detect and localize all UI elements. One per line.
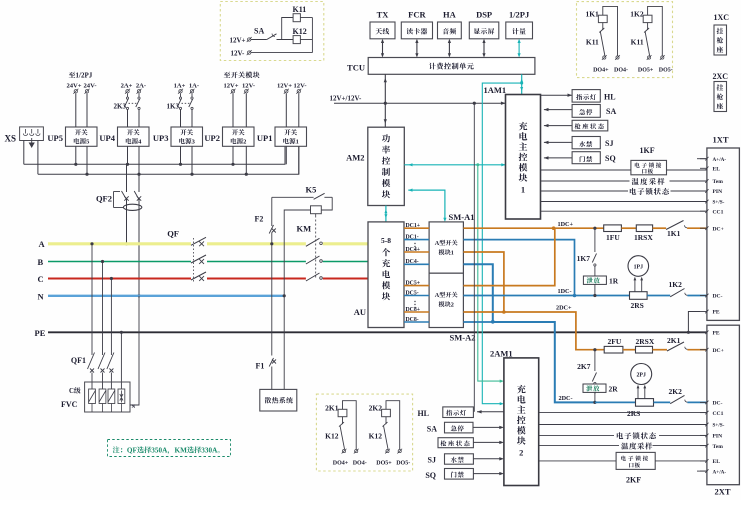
svg-text:DO5+: DO5+ xyxy=(638,68,654,74)
K5 linkage dashed to KM xyxy=(315,214,317,216)
varistor element xyxy=(89,389,96,404)
varistor element xyxy=(99,389,106,404)
svg-text:EL: EL xyxy=(713,459,721,465)
coil K5 xyxy=(321,197,332,210)
svg-text:12V-: 12V- xyxy=(293,82,306,89)
output relay dashed box (DO4/DO5 circuit 1) xyxy=(577,2,673,78)
neutral bus N (blue) xyxy=(48,295,284,297)
terminal PIN (2XT) xyxy=(700,434,707,436)
svg-text:C: C xyxy=(38,274,44,284)
terminal Tem (2XT) xyxy=(700,445,707,447)
1DC- rail from SM-A2 xyxy=(463,295,629,297)
wire DC8+ between AU and switch module xyxy=(404,311,429,313)
contactor KM (3-pole) xyxy=(0,0,1,1)
1DC+ rail from SM-A1 xyxy=(463,227,603,229)
svg-text:2AM1: 2AM1 xyxy=(490,349,513,359)
wire A+/A- stub (1XT) xyxy=(697,158,707,160)
phase A bus (yellow) xyxy=(48,242,191,245)
svg-text:J: J xyxy=(89,72,93,80)
svg-text:1/2PJ: 1/2PJ xyxy=(509,10,530,20)
emergency stop SA (circuit1) xyxy=(544,109,572,111)
terminal DO4+ xyxy=(342,449,347,454)
supply bus L (upper) xyxy=(24,146,285,164)
output relay dashed box (DO4/DO5 circuit 2) xyxy=(316,394,412,471)
svg-text:SM-A2: SM-A2 xyxy=(450,333,476,343)
wires UP5 to buses xyxy=(75,146,77,164)
junction dots on supply buses for UP2 xyxy=(231,163,234,166)
svg-text:24V+: 24V+ xyxy=(66,82,81,89)
teal link AM2 to SM-A1 xyxy=(408,190,445,218)
svg-text:DO4-: DO4- xyxy=(353,461,367,467)
wire N to cooling system xyxy=(283,296,285,390)
svg-text:PE: PE xyxy=(713,331,720,337)
wire DC4+ between AU and switch module xyxy=(404,251,429,253)
svg-text:DO5-: DO5- xyxy=(396,461,410,467)
svg-text:1FU: 1FU xyxy=(606,233,620,242)
teal link AM2 to 1AM1 xyxy=(404,164,505,166)
terminal DO5- xyxy=(397,449,402,454)
svg-text:AM2: AM2 xyxy=(346,153,364,163)
terminal 24V- xyxy=(85,89,90,94)
svg-text:12V+: 12V+ xyxy=(223,82,238,89)
svg-text:DSP: DSP xyxy=(476,10,492,20)
svg-text:K12: K12 xyxy=(325,432,339,441)
wire DC4- down xyxy=(463,264,492,321)
wires UP2 to buses xyxy=(232,146,234,164)
svg-text:1K1: 1K1 xyxy=(667,229,681,238)
shunt resistor 1RSX xyxy=(636,225,652,232)
svg-text:A+/A-: A+/A- xyxy=(713,157,727,163)
switching power supply UP1 box xyxy=(275,127,307,146)
svg-text:DO4+: DO4+ xyxy=(333,461,349,467)
svg-text:2RSX: 2RSX xyxy=(636,337,655,346)
svg-text:UP2: UP2 xyxy=(204,133,220,143)
terminal CC1 (2XT) xyxy=(700,412,707,414)
svg-text:1: 1 xyxy=(451,250,454,257)
ground symbol below XS xyxy=(31,138,33,143)
svg-text:F1: F1 xyxy=(256,362,265,371)
svg-text:A: A xyxy=(435,292,440,299)
svg-text:N: N xyxy=(38,292,45,302)
wire DC5- between AU and switch module xyxy=(404,295,429,297)
double arrow DSP to billing unit xyxy=(483,42,485,54)
wire phase tap to QF1 pole xyxy=(90,242,93,245)
terminal DO4- xyxy=(354,449,359,454)
svg-text:2RS: 2RS xyxy=(631,301,644,310)
terminal CC1 (1XT) xyxy=(700,210,707,212)
wire DC1- between AU and switch module xyxy=(404,239,429,241)
junction dots on supply buses for UP3 xyxy=(179,163,182,166)
double arrow FCR to billing unit xyxy=(416,42,418,54)
svg-text:1R: 1R xyxy=(609,277,619,286)
svg-text:PE: PE xyxy=(35,328,46,338)
varistor element xyxy=(108,389,115,404)
double arrow billing to AM2 xyxy=(384,74,386,127)
svg-text:PIN: PIN xyxy=(713,189,723,195)
svg-text:QF1: QF1 xyxy=(71,356,86,365)
svg-text:SA: SA xyxy=(606,107,616,116)
svg-text:EL: EL xyxy=(713,167,721,173)
terminal 12V+ xyxy=(247,37,252,42)
svg-text:UP5: UP5 xyxy=(47,133,63,143)
svg-text:2PJ: 2PJ xyxy=(637,372,646,378)
switching power supply UP2 box xyxy=(223,127,255,146)
2DC+ rail xyxy=(593,348,596,351)
svg-text:24V-: 24V- xyxy=(83,82,96,89)
svg-text:Tem: Tem xyxy=(713,444,724,450)
svg-text:K11: K11 xyxy=(586,38,599,47)
wires UP3 to buses xyxy=(180,146,182,164)
wire S+/S- (2) xyxy=(539,424,707,426)
teal double arrow AM2 to AU xyxy=(385,206,387,222)
PE tap to surge arrester xyxy=(120,331,123,334)
note box: QF select 350A, KM select 330A xyxy=(108,440,231,457)
svg-text:DC-: DC- xyxy=(713,401,723,407)
junction dots on supply buses for UP4 xyxy=(126,163,129,166)
svg-text:UP4: UP4 xyxy=(99,133,115,143)
svg-text:FCR: FCR xyxy=(408,10,426,20)
bleed resistor 2R box xyxy=(583,384,606,392)
terminal PE (1XT) xyxy=(700,311,707,313)
svg-text:12V-: 12V- xyxy=(242,82,255,89)
svg-text:1RSX: 1RSX xyxy=(634,233,653,242)
wires UP4 to buses xyxy=(127,146,129,164)
wire CC1 (2) xyxy=(539,412,707,414)
teal link billing to 1AM1 xyxy=(521,74,523,94)
svg-text:C: C xyxy=(69,388,74,395)
terminal EL (1XT) xyxy=(700,167,707,169)
right return wire xyxy=(311,18,313,53)
svg-text:XS: XS xyxy=(5,134,17,144)
wire EL through 2KF (2) xyxy=(539,460,616,462)
door sensor SQ (circuit1) xyxy=(544,157,572,159)
svg-text:K12: K12 xyxy=(293,27,307,36)
svg-text:QF2: QF2 xyxy=(96,194,112,204)
svg-text:1K7: 1K7 xyxy=(577,254,591,263)
svg-text:1XT: 1XT xyxy=(713,135,729,145)
svg-text:HL: HL xyxy=(417,409,429,418)
label to 1/2PJ xyxy=(69,72,93,80)
svg-text:UP1: UP1 xyxy=(257,133,273,143)
svg-text:SJ: SJ xyxy=(605,139,613,148)
terminal 2A- xyxy=(137,89,142,94)
wire Tem with label xyxy=(541,180,630,182)
svg-text:2: 2 xyxy=(519,447,523,457)
svg-text:1K3: 1K3 xyxy=(167,103,180,111)
KM linkage dashed xyxy=(315,216,317,280)
meter sense arrows from 2RS xyxy=(634,280,636,292)
wire DC5+ between AU and switch module xyxy=(404,285,429,287)
fuse 1FU xyxy=(604,225,622,232)
top link wire xyxy=(386,401,400,449)
ellipsis dots between DC1- and DC4+ xyxy=(414,243,415,244)
indicator light HL (circuit1) xyxy=(541,94,573,96)
svg-text:A: A xyxy=(39,239,46,249)
svg-text:1A-: 1A- xyxy=(189,82,199,89)
phase B bus (green) xyxy=(48,261,191,263)
svg-text:FVC: FVC xyxy=(61,400,78,409)
svg-text:2A+: 2A+ xyxy=(121,82,133,89)
wire DC8- between AU and switch module xyxy=(404,321,429,323)
wires UP1 to buses xyxy=(285,146,287,164)
svg-text:DC+: DC+ xyxy=(713,226,724,232)
wire CC1 xyxy=(541,210,707,212)
terminal 12V- (UP2) xyxy=(244,89,249,94)
svg-text:SM-A1: SM-A1 xyxy=(449,212,475,222)
auxiliary relay dashed box (SA control) xyxy=(220,2,323,61)
svg-text:A: A xyxy=(435,240,440,247)
svg-text:B: B xyxy=(38,257,44,267)
svg-text:1K1: 1K1 xyxy=(585,10,599,19)
svg-text:2A-: 2A- xyxy=(136,82,146,89)
energy meter 1PJ xyxy=(628,256,649,277)
terminal Tem (1XT) xyxy=(700,180,707,182)
junction dots on supply buses for UP5 xyxy=(74,163,77,166)
terminal DC+ (2XT) xyxy=(700,349,707,351)
wire F2 to K5 contact xyxy=(272,196,314,198)
shunt 2RS (circuit 1) xyxy=(630,292,648,300)
svg-text:2KF: 2KF xyxy=(626,476,641,485)
wire XS to supply bus L xyxy=(23,141,25,165)
svg-text:SQ: SQ xyxy=(605,154,616,163)
terminal A+/A- (2XT) xyxy=(700,470,707,472)
teal branch to 2AM1 (long drop) xyxy=(482,83,521,404)
svg-text:SQ: SQ xyxy=(425,471,436,480)
terminal DC+ (1XT) xyxy=(700,227,707,229)
switching power supply UP3 box xyxy=(171,127,203,146)
svg-text:DO5-: DO5- xyxy=(659,68,673,74)
wire Tem with label (2) xyxy=(539,445,619,447)
wire QF2 to phase A xyxy=(126,200,128,244)
svg-text:DO4+: DO4+ xyxy=(593,68,609,74)
ellipsis dots between DC5- and DC8+ xyxy=(414,301,415,302)
terminal DO4+ xyxy=(602,55,607,60)
svg-text:2RS: 2RS xyxy=(627,409,640,418)
wire QF2 to neutral N xyxy=(138,200,140,296)
top link wire xyxy=(603,6,618,55)
wires bus to breaker QF2 xyxy=(126,164,128,192)
top link wire xyxy=(648,6,663,55)
terminal S+/S- (2XT) xyxy=(700,424,707,426)
terminal 12V+ (UP2) xyxy=(231,89,236,94)
terminal DC- (2XT) xyxy=(700,401,707,403)
relay contact 2K3 (2 poles with linkage) xyxy=(127,94,129,98)
svg-text:DC5-: DC5- xyxy=(406,290,419,296)
svg-text:TX: TX xyxy=(377,10,390,20)
svg-text:DO5+: DO5+ xyxy=(376,461,392,467)
svg-text:1KF: 1KF xyxy=(640,146,655,155)
svg-text:SJ: SJ xyxy=(428,455,436,464)
svg-text:N: N xyxy=(132,405,136,410)
wire DC1- down xyxy=(463,240,574,296)
terminal DO4- xyxy=(615,55,620,60)
grey drop from 12V to HL2 xyxy=(473,102,476,105)
PE link from bus to 1XT xyxy=(687,331,690,334)
terminal S+/S- (1XT) xyxy=(700,201,707,203)
terminal 12V- (UP1) xyxy=(296,89,301,94)
svg-text:2K3: 2K3 xyxy=(114,103,127,111)
svg-text:1DC+: 1DC+ xyxy=(558,221,574,228)
terminal A+/A- (1XT) xyxy=(700,158,707,160)
top link wire xyxy=(343,401,357,449)
gas discharge element xyxy=(118,389,125,404)
svg-text:2XT: 2XT xyxy=(715,487,731,497)
svg-text:DC+: DC+ xyxy=(713,348,724,354)
12V supply line to 1AM1 xyxy=(334,102,506,104)
svg-text:1PJ: 1PJ xyxy=(634,264,643,270)
svg-text:PIN: PIN xyxy=(713,434,723,440)
svg-text:DC-: DC- xyxy=(713,294,723,300)
svg-text:A: A xyxy=(162,447,168,455)
svg-text:2DC-: 2DC- xyxy=(559,395,573,402)
PE earth bus xyxy=(48,331,707,333)
N wire into FVC xyxy=(130,296,139,405)
2DC+ route xyxy=(463,311,504,313)
wire DC4- between AU and switch module xyxy=(404,263,429,265)
wire DC4+ down to 2DC+ xyxy=(463,252,504,312)
svg-text:1DC-: 1DC- xyxy=(558,288,572,295)
svg-text:2DC+: 2DC+ xyxy=(556,305,572,312)
svg-text:F2: F2 xyxy=(255,215,264,224)
svg-text:K12: K12 xyxy=(369,432,383,441)
svg-text:QF: QF xyxy=(167,229,179,239)
phase C bus (red) xyxy=(48,278,191,280)
terminal EL (2XT) xyxy=(700,460,707,462)
svg-text:DC5+: DC5+ xyxy=(406,280,421,286)
wire S+/S- xyxy=(541,201,707,203)
svg-text:12V+: 12V+ xyxy=(277,82,292,89)
shunt 2RS (circuit 2) xyxy=(636,399,654,407)
lock interface board 2KF xyxy=(616,452,655,469)
terminal DO5- xyxy=(660,55,665,60)
svg-text:5-8: 5-8 xyxy=(381,236,391,245)
svg-text:S+/S-: S+/S- xyxy=(713,423,725,429)
terminal 2A+ xyxy=(125,89,130,94)
svg-text:2K2: 2K2 xyxy=(669,387,683,396)
svg-text:AU: AU xyxy=(354,307,366,317)
svg-text:K5: K5 xyxy=(306,185,317,195)
holster status box (circuit2) xyxy=(438,438,473,448)
svg-text:PE: PE xyxy=(713,310,720,316)
holster status box (circuit1) xyxy=(544,125,572,127)
svg-text:DO4-: DO4- xyxy=(614,68,628,74)
svg-text:A: A xyxy=(212,447,218,455)
wire EL through 1KF xyxy=(541,169,631,171)
svg-text:CC1: CC1 xyxy=(713,209,724,215)
svg-text:KM: KM xyxy=(297,224,312,234)
wire phase tap to QF1 pole xyxy=(110,277,113,280)
svg-text:2K7: 2K7 xyxy=(577,362,591,371)
svg-text:2FU: 2FU xyxy=(608,337,622,346)
terminal 12V+ (UP1) xyxy=(284,89,289,94)
teal branch down to 2AM1 xyxy=(476,163,479,166)
wire DC8- to 2DC- xyxy=(463,321,492,323)
switching power supply UP4 box xyxy=(118,127,150,146)
svg-text:2K1: 2K1 xyxy=(667,336,681,345)
svg-text:TCU: TCU xyxy=(347,62,365,72)
bleed resistor 1R box xyxy=(583,276,606,284)
svg-text:S+/S-: S+/S- xyxy=(713,200,725,206)
svg-text:A+/A-: A+/A- xyxy=(713,469,727,475)
svg-text:DC4+: DC4+ xyxy=(406,247,421,253)
svg-text:12V-: 12V- xyxy=(231,50,246,58)
svg-text:12V+/12V-: 12V+/12V- xyxy=(330,95,363,103)
wire SA to coils xyxy=(277,39,294,41)
wire PIN with label (2) xyxy=(539,434,614,436)
label to switch modules xyxy=(224,72,260,79)
svg-text:K11: K11 xyxy=(631,38,644,47)
wire phase tap to QF1 pole xyxy=(101,260,104,263)
wires UP5 to 24V terminals xyxy=(75,94,77,128)
terminal 1A- xyxy=(190,89,195,94)
terminal PE (2XT) xyxy=(700,331,707,333)
svg-text:UP3: UP3 xyxy=(153,133,169,143)
svg-text:1K2: 1K2 xyxy=(669,280,683,289)
terminal PIN (1XT) xyxy=(700,190,707,192)
svg-text:CC1: CC1 xyxy=(713,411,724,417)
svg-text:K11: K11 xyxy=(293,5,307,14)
meter sense arrows xyxy=(637,388,639,399)
svg-text:DC8+: DC8+ xyxy=(406,307,421,313)
relay contact 1K3 (2 poles with linkage) xyxy=(180,94,182,98)
svg-text:1A+: 1A+ xyxy=(174,82,186,89)
energy meter 2PJ xyxy=(631,364,652,385)
wire A+/A- stub (2XT) xyxy=(697,470,707,472)
svg-text:1K2: 1K2 xyxy=(630,10,644,19)
svg-text:2R: 2R xyxy=(609,385,619,394)
wire XS to supply bus N xyxy=(37,141,39,175)
wire PIN with label xyxy=(541,190,629,192)
terminal 1A+ xyxy=(178,89,183,94)
svg-text:DC4-: DC4- xyxy=(406,259,419,265)
svg-text:DC1-: DC1- xyxy=(406,234,419,240)
svg-text:DC1+: DC1+ xyxy=(406,223,421,229)
surge protection box FVC (C class) xyxy=(85,382,130,412)
terminal DO5+ xyxy=(385,449,390,454)
svg-text:1AM1: 1AM1 xyxy=(484,85,507,95)
double arrow TX to billing unit xyxy=(382,42,384,54)
svg-text:2: 2 xyxy=(451,302,454,309)
double arrow HA to billing unit xyxy=(448,42,450,54)
wire DC5+ up to 1DC+ xyxy=(463,228,554,285)
wires UP1 to 12V terminals xyxy=(285,94,287,128)
svg-text:SA: SA xyxy=(254,26,264,35)
branch to K11 xyxy=(282,18,293,40)
svg-text:HL: HL xyxy=(604,92,616,101)
water sensor SJ (circuit1) xyxy=(544,141,572,143)
svg-text:2XC: 2XC xyxy=(713,72,729,81)
svg-text:1: 1 xyxy=(296,139,299,146)
wire DC1+ between AU and switch module xyxy=(404,227,429,229)
svg-text:F: F xyxy=(133,447,138,455)
terminal DO5+ xyxy=(647,55,652,60)
terminal 24V+ xyxy=(73,89,78,94)
switching power supply UP5 box xyxy=(66,127,98,146)
svg-text:2K2: 2K2 xyxy=(369,404,383,413)
svg-text:2K1: 2K1 xyxy=(325,404,339,413)
svg-text:12V+: 12V+ xyxy=(230,36,246,44)
svg-text:M: M xyxy=(180,447,187,455)
wire K5 coil to N xyxy=(284,210,310,296)
double arrow 1/2PJ to billing unit xyxy=(518,42,520,54)
svg-text:2: 2 xyxy=(243,139,246,146)
cooling system box (heat dissipation) xyxy=(260,389,297,411)
svg-text:DC8-: DC8- xyxy=(406,317,419,323)
terminal 12V- xyxy=(247,50,252,55)
svg-text:1: 1 xyxy=(521,185,525,195)
supply bus N (lower) xyxy=(38,146,299,174)
wires UP2 to 12V terminals xyxy=(232,94,234,128)
